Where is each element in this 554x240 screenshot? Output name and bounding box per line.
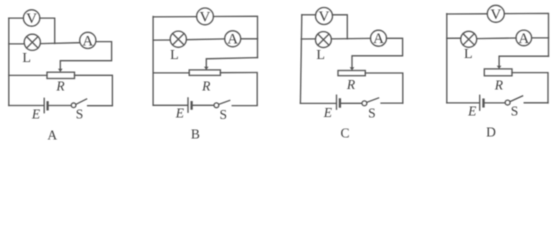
wire: B switch to right corner — [232, 105, 257, 107]
lamp L (circuit D) — [461, 31, 477, 47]
ammeter A (circuit D) — [516, 30, 532, 46]
voltmeter V (circuit B) — [197, 8, 214, 25]
wire: C voltmeter loop right — [332, 15, 347, 39]
wire: C lamp to ammeter — [331, 37, 370, 40]
ammeter A (circuit A) — [80, 32, 96, 48]
wire: D top row left — [447, 13, 488, 15]
wire: C lamp row left — [301, 38, 315, 40]
wire: B ammeter to right vertical — [241, 38, 258, 40]
svg-text:E: E — [467, 103, 477, 118]
wire: C battery to switch — [341, 102, 361, 104]
svg-text:C: C — [340, 126, 349, 141]
wire: B bottom left — [153, 104, 187, 106]
lamp L (circuit A) — [24, 34, 40, 50]
svg-text:B: B — [191, 126, 200, 141]
svg-text:R: R — [346, 77, 356, 92]
wire: B wiper loop — [206, 58, 257, 67]
voltmeter V (circuit C) — [316, 8, 333, 25]
wire: A outer left vertical — [8, 18, 10, 105]
wire: B rheostat left — [153, 72, 189, 74]
svg-text:L: L — [170, 48, 179, 63]
svg-text:V: V — [26, 11, 37, 27]
arrowhead wiper (circuit B) — [204, 67, 209, 70]
wire: D battery to switch — [485, 102, 505, 104]
rheostat R (circuit B) — [189, 70, 220, 76]
battery E (circuit B) — [187, 98, 189, 112]
wire: D lamp to ammeter — [477, 37, 516, 40]
wire: A ammeter to wiper loop — [60, 42, 111, 69]
svg-text:S: S — [220, 107, 228, 122]
battery E (circuit A) — [43, 98, 45, 112]
lamp L (circuit B) — [170, 31, 186, 47]
wire: B top row left — [153, 16, 197, 18]
wire: C rheostat right down — [365, 73, 403, 103]
wire: A lamp row left — [9, 43, 24, 45]
wire: D top row right + right vertical upper — [504, 13, 548, 56]
wire: C voltmeter loop top — [302, 14, 316, 16]
wire: A voltmeter row right — [40, 18, 55, 43]
rheostat R (circuit C) — [338, 71, 365, 76]
wire: D lamp row left — [447, 37, 461, 39]
battery E (circuit D) — [479, 95, 481, 110]
wire: C ammeter to wiper loop — [352, 38, 403, 67]
wire: D outer left vertical — [446, 14, 448, 103]
lamp L (circuit C) — [315, 32, 331, 48]
svg-text:R: R — [494, 78, 504, 93]
svg-text:R: R — [55, 79, 65, 94]
svg-text:L: L — [464, 47, 473, 62]
wire: B battery to switch — [193, 104, 214, 106]
wire: B top row right + right vertical upper — [213, 16, 257, 57]
wire: C outer left vertical — [300, 15, 301, 104]
voltmeter V (circuit D) — [487, 5, 504, 22]
wire: B lamp row left — [153, 39, 170, 41]
rheostat R (circuit A) — [47, 72, 75, 78]
svg-text:E: E — [175, 106, 185, 121]
svg-text:L: L — [316, 48, 325, 63]
svg-text:A: A — [82, 33, 93, 49]
wire: B outer left vertical — [152, 17, 154, 106]
svg-text:V: V — [490, 7, 501, 23]
wire: B lamp to ammeter — [186, 38, 224, 41]
wire: A switch to right corner — [88, 105, 113, 107]
wire: A lamp to ammeter — [40, 42, 79, 45]
svg-text:A: A — [227, 32, 238, 48]
svg-text:V: V — [319, 9, 330, 25]
switch S (circuit C) — [362, 101, 367, 106]
svg-text:S: S — [511, 103, 519, 118]
switch S (circuit D) — [505, 100, 510, 105]
wire: A battery to switch — [49, 105, 71, 107]
wire: C switch to right corner — [381, 102, 403, 104]
wire: D ammeter to right vertical — [532, 37, 549, 39]
switch S (circuit A) — [71, 103, 76, 108]
svg-text:L: L — [22, 51, 31, 66]
wire: B rheostat right down — [220, 73, 257, 106]
svg-text:E: E — [31, 106, 41, 121]
battery E (circuit C) — [336, 95, 338, 109]
svg-text:R: R — [201, 78, 211, 93]
svg-text:D: D — [486, 124, 496, 139]
arrowhead wiper (circuit C) — [350, 67, 355, 70]
wire: D wiper loop — [499, 56, 548, 66]
ammeter A (circuit B) — [225, 31, 241, 47]
svg-text:S: S — [368, 105, 376, 120]
wire: D switch to right corner — [524, 102, 548, 104]
svg-text:E: E — [323, 105, 333, 120]
ammeter A (circuit C) — [371, 30, 387, 46]
wire: D bottom left — [447, 102, 479, 104]
svg-text:A: A — [518, 31, 529, 47]
arrowhead wiper (circuit A) — [58, 69, 63, 72]
wire: D rheostat right down — [512, 73, 548, 103]
arrowhead wiper (circuit D) — [497, 66, 502, 69]
svg-text:A: A — [373, 31, 384, 47]
svg-text:A: A — [47, 128, 57, 143]
wire: A rheostat left — [9, 74, 47, 76]
wire: C bottom left — [300, 102, 335, 104]
svg-text:V: V — [200, 9, 211, 25]
wire: A bottom left — [9, 105, 44, 107]
voltmeter V (circuit A) — [23, 10, 39, 26]
rheostat R (circuit D) — [484, 69, 512, 76]
svg-text:S: S — [76, 106, 84, 121]
switch S (circuit B) — [214, 103, 219, 108]
wire: A voltmeter row — [9, 17, 24, 19]
wire: A rheostat right down — [75, 75, 113, 105]
